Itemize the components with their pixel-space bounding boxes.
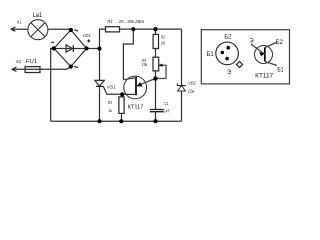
svg-text:C1: C1: [164, 101, 169, 106]
thyristor VS1: [95, 80, 105, 121]
bridge center line: [54, 48, 87, 50]
svg-text:Б2: Б2: [276, 39, 284, 46]
wire VS1 gate: [103, 87, 122, 95]
wire VS1 anode: [99, 49, 101, 81]
info box: [201, 30, 289, 84]
svg-text:X2: X2: [15, 59, 22, 65]
junction bridge minus: [52, 46, 56, 50]
fuse FU1: [25, 67, 40, 73]
svg-text:Б1: Б1: [277, 67, 284, 74]
svg-text:VD1: VD1: [83, 33, 91, 38]
wire bridge minus to bottom rail: [51, 49, 54, 122]
svg-text:VS1: VS1: [107, 84, 117, 89]
bridge ac tilde top: [74, 30, 78, 31]
svg-text:12в: 12в: [188, 88, 195, 93]
wire top rail to UJT B2 jog: [123, 29, 133, 80]
transistor case bottom view: [216, 42, 243, 67]
junction R3 rail: [119, 119, 123, 123]
junction C1 rail: [153, 119, 157, 123]
junction R2 top: [153, 27, 157, 31]
bridge minus mark: [51, 41, 54, 43]
junction bridge AC bottom: [69, 65, 73, 69]
svg-text:FU1: FU1: [26, 59, 38, 65]
resistor R1: [106, 27, 120, 32]
UJT symbol in box: [251, 43, 277, 66]
capacitor C1: [150, 79, 164, 122]
svg-text:Э: Э: [250, 38, 255, 45]
junction VS1 cathode rail: [97, 119, 101, 123]
junction bridge AC top: [69, 28, 73, 32]
svg-text:R2: R2: [161, 34, 165, 39]
wire fuse to bridge bottom: [40, 67, 71, 69]
svg-text:КТ117: КТ117: [255, 72, 274, 79]
potentiometer R4: [153, 57, 166, 78]
svg-text:20.. 30к 2Вт: 20.. 30к 2Вт: [118, 19, 144, 25]
svg-text:La1: La1: [33, 12, 43, 19]
terminal X2: [12, 67, 25, 71]
svg-text:Э: Э: [227, 69, 232, 76]
bridge ac tilde bottom: [74, 66, 78, 67]
svg-text:10к: 10к: [142, 62, 148, 67]
lamp La1: [28, 20, 48, 40]
svg-text:Б2: Б2: [224, 34, 232, 41]
bridge inner diode: [66, 45, 73, 52]
svg-text:X1: X1: [16, 20, 22, 26]
resistor R2: [153, 29, 158, 57]
top rail: [119, 28, 181, 30]
wire node up to R1: [100, 29, 106, 48]
svg-text:КТ117: КТ117: [128, 105, 144, 111]
unijunction transistor KT117: [122, 76, 155, 99]
junction bridge plus: [84, 46, 88, 50]
resistor R3: [119, 94, 124, 121]
junction emitter node: [153, 76, 157, 80]
svg-text:0,47: 0,47: [163, 108, 170, 113]
junction B2 to rail: [131, 27, 135, 31]
svg-text:R1: R1: [107, 19, 112, 25]
svg-text:Б1: Б1: [207, 51, 215, 58]
junction gate R3: [120, 92, 124, 96]
svg-text:VD2: VD2: [188, 81, 196, 86]
bridge plus mark: [87, 39, 90, 42]
terminal X1: [11, 27, 28, 31]
wire bridge plus node: [87, 48, 100, 50]
bottom rail: [51, 120, 182, 122]
bridge VD1 diamond: [54, 30, 87, 67]
svg-text:R3: R3: [108, 100, 113, 105]
wire lamp to bridge top: [48, 28, 71, 30]
svg-text:100: 100: [161, 41, 166, 46]
junction plus node: [97, 46, 101, 50]
zener diode VD2: [177, 29, 185, 121]
